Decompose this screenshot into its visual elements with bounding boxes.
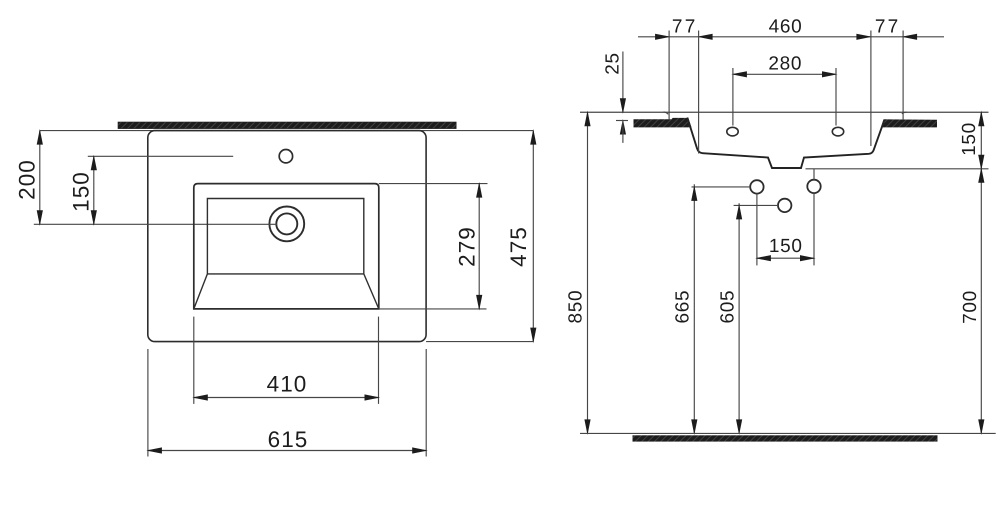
svg-text:700: 700	[960, 290, 981, 324]
extension line from bowl top edge to dim 279	[379, 183, 488, 185]
extension line below bowl bottom-left corner	[193, 317, 195, 404]
bowl inner back wall	[207, 199, 363, 274]
bowl front slope right diagonal	[364, 274, 379, 309]
bowl front slope left diagonal	[194, 274, 208, 309]
svg-text:665: 665	[672, 290, 693, 324]
extension line below rim bottom-left corner	[147, 349, 149, 457]
floor hatched bar	[633, 435, 938, 441]
overflow hole	[279, 150, 292, 163]
top dimension line (77 / 460 / 77)	[638, 34, 944, 40]
dimension 279 line	[476, 182, 482, 311]
dimension 150 line (left view)	[91, 155, 97, 226]
dimension 475 line	[530, 129, 536, 343]
extension line from bowl bottom edge to dim 279	[379, 308, 487, 310]
counter top surface line	[580, 111, 989, 113]
svg-text:150: 150	[69, 171, 94, 212]
extension line 280 right	[835, 68, 837, 126]
floor line	[580, 432, 996, 434]
faucet hole inner circle	[276, 213, 297, 234]
svg-text:279: 279	[454, 226, 479, 267]
stub line above right fixing hole	[813, 169, 815, 180]
dimension 280 line	[731, 71, 837, 77]
extension line y=168.8 from drain to right	[806, 168, 989, 170]
extension line for 77 right outer	[902, 31, 904, 120]
dimension 200 line	[37, 129, 43, 226]
extension line for 460 left	[698, 31, 700, 154]
faucet hole outer circle	[269, 207, 304, 242]
dimension 665 line	[691, 184, 697, 435]
counter hatched bar (top view)	[118, 122, 456, 129]
svg-text:410: 410	[267, 372, 308, 397]
dimension 150 (right, rim depth) line	[978, 111, 984, 171]
extension line 280 left	[732, 68, 734, 126]
surface line jog right	[902, 112, 907, 114]
surface line jog left	[664, 112, 669, 114]
svg-text:850: 850	[566, 290, 587, 324]
dimension 605 line	[736, 203, 742, 435]
svg-text:475: 475	[506, 226, 531, 267]
extension line below bowl bottom-right corner	[378, 317, 380, 404]
svg-text:77: 77	[875, 16, 901, 37]
dimension 150 (hole spacing) line	[755, 255, 815, 261]
wall fixing hole right	[807, 180, 820, 193]
counter hatched bar right (section)	[881, 119, 937, 127]
stub line below left fixing hole	[756, 194, 758, 266]
extension line y=224.3 for dims 200/150	[34, 223, 277, 225]
svg-text:150: 150	[769, 236, 803, 257]
wall fixing hole left	[750, 180, 763, 193]
extension line y=156.3 for dim 150	[88, 155, 233, 157]
svg-text:605: 605	[717, 290, 738, 324]
dimension 410 line	[192, 394, 380, 400]
drain hole center	[778, 199, 791, 212]
svg-text:77: 77	[672, 16, 698, 37]
bowl outer outline	[194, 184, 379, 309]
extension line y=205.4 to center hole	[734, 204, 778, 206]
extension line along basin top edge y=130.6	[40, 130, 534, 132]
basin outer rim (top view)	[148, 131, 426, 342]
faucet hole (section) left ellipse	[727, 127, 738, 136]
extension line for 460 right	[870, 31, 872, 147]
stub line below right fixing hole	[813, 193, 815, 265]
dimension 615 line	[146, 447, 428, 453]
dimension 25 line	[616, 52, 628, 143]
svg-text:460: 460	[769, 17, 803, 38]
extension line from rim bottom edge to dim 475	[426, 341, 533, 343]
extension line for 77 left outer	[668, 31, 670, 120]
dimension 700 line	[978, 167, 984, 435]
svg-text:150: 150	[959, 122, 980, 156]
faucet hole (section) right ellipse	[832, 127, 843, 136]
svg-text:280: 280	[768, 53, 802, 74]
basin profile (section)	[687, 118, 884, 169]
extension line y=186.9 to left hole	[692, 186, 751, 188]
svg-text:200: 200	[15, 159, 40, 200]
svg-text:25: 25	[602, 52, 623, 75]
svg-text:615: 615	[268, 427, 309, 452]
dimension 850 line	[584, 111, 590, 435]
extension line below rim bottom-right corner	[425, 349, 427, 457]
counter hatched bar left (section)	[634, 118, 692, 128]
